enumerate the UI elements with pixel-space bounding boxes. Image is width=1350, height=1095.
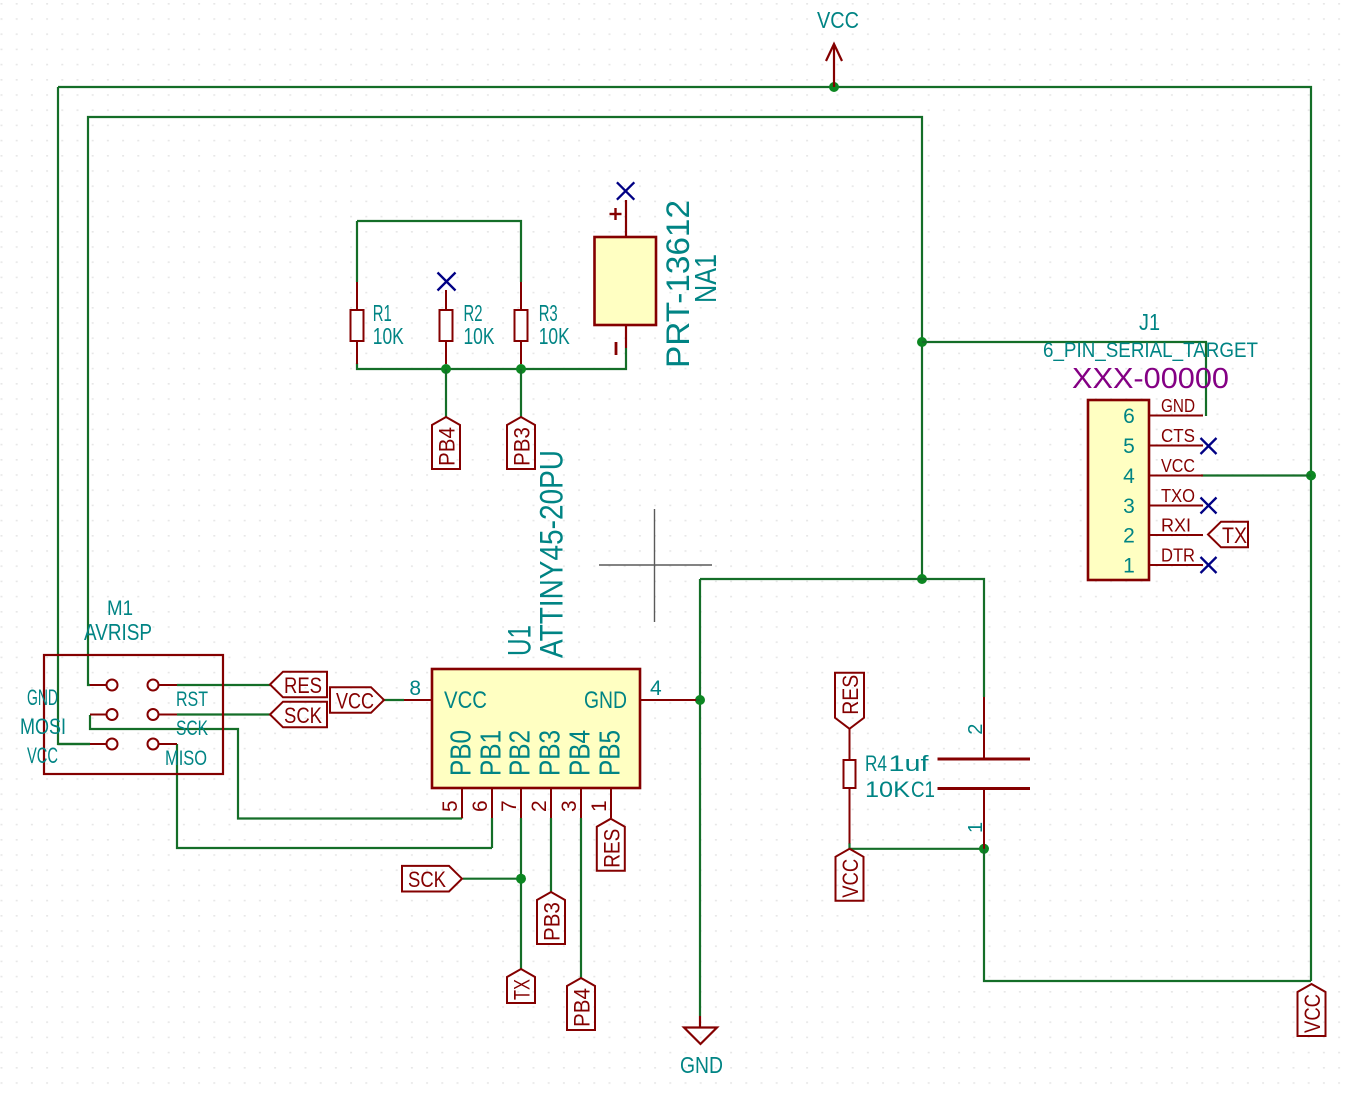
global label VCC (bottom right): [1298, 984, 1326, 1036]
M1 pin circle right MISO: [148, 739, 159, 750]
resistor R4 top lead: [849, 729, 851, 760]
wire second rail to M1 GND pin and J1 GND (net GND): [88, 117, 922, 685]
capacitor C1 top plate: [938, 758, 1031, 761]
svg-text:M1: M1: [107, 597, 133, 620]
resistor R3 body: [515, 310, 528, 341]
svg-text:MOSI: MOSI: [20, 714, 66, 739]
capacitor C1 pin2 lead: [983, 697, 985, 758]
svg-text:CTS: CTS: [1161, 426, 1195, 446]
global label PB3 (below R3): [507, 417, 535, 469]
M1 pin circle left MOSI: [107, 709, 118, 720]
wire R4 bottom to C1 bottom (net VCC): [850, 843, 985, 849]
svg-text:VCC: VCC: [336, 689, 374, 714]
J1 pin 2 line: [1149, 534, 1203, 536]
svg-text:GND: GND: [680, 1052, 723, 1078]
svg-text:2: 2: [1123, 525, 1135, 548]
svg-text:RST: RST: [176, 688, 208, 711]
no-connect X on J1 DTR: [1201, 557, 1217, 573]
U1 pin 7 line: [520, 788, 522, 818]
resistor R4 bottom lead: [849, 788, 851, 844]
wire U1 pin7 to TX label: [520, 818, 522, 969]
svg-text:10K: 10K: [464, 323, 495, 349]
M1 pin circle right RST: [148, 680, 159, 691]
resistor R1 body: [351, 310, 364, 341]
junction U1 pin4 / GND drop: [695, 695, 705, 705]
svg-text:RES: RES: [838, 675, 863, 715]
resistor R1 leads: [356, 282, 358, 364]
junction VCC rail / power symbol tap: [829, 82, 839, 92]
wire M1 SCK to SCK label: [177, 713, 270, 715]
wire U1 pin6 vertical: [491, 818, 493, 848]
svg-text:6: 6: [469, 800, 492, 812]
svg-text:PB4: PB4: [570, 988, 595, 1027]
J1 pin 3 line: [1149, 505, 1203, 507]
cursor crosshair: [599, 509, 712, 622]
svg-text:PB2: PB2: [505, 730, 537, 776]
svg-text:1uf: 1uf: [889, 751, 930, 776]
M1 pin stubs row VCC/MISO: [90, 743, 177, 745]
svg-text:RES: RES: [599, 829, 624, 868]
svg-text:10K: 10K: [373, 323, 404, 349]
svg-text:10K: 10K: [865, 777, 910, 802]
svg-text:4: 4: [1123, 465, 1135, 488]
capacitor C1 bottom plate: [938, 787, 1031, 790]
svg-text:MISO: MISO: [165, 747, 207, 770]
svg-text:RES: RES: [284, 673, 322, 698]
U1 pin 5 line: [461, 788, 463, 818]
wire J1 pin4 VCC to right rail: [1201, 474, 1311, 476]
svg-text:1: 1: [1123, 555, 1135, 578]
svg-text:PB1: PB1: [476, 730, 508, 776]
no-connect X on R2 top: [438, 273, 456, 291]
svg-text:J1: J1: [1139, 309, 1160, 335]
svg-text:AVRISP: AVRISP: [84, 619, 152, 645]
global label TX (U1 pin7): [507, 969, 535, 1003]
svg-text:6: 6: [1123, 405, 1135, 428]
junction VCC rail / J1 pin4: [1306, 471, 1316, 481]
svg-text:6_PIN_SERIAL_TARGET: 6_PIN_SERIAL_TARGET: [1043, 339, 1258, 362]
M1 pin circle left GND: [107, 680, 118, 691]
svg-text:PB3: PB3: [540, 902, 565, 941]
M1 pin circle left VCC: [107, 739, 118, 750]
svg-text:C1: C1: [911, 777, 935, 802]
junction C1 pin1 / VCC link: [979, 844, 989, 854]
svg-text:GND: GND: [584, 687, 627, 714]
svg-text:NA1: NA1: [688, 254, 723, 303]
svg-text:3: 3: [1123, 495, 1135, 518]
svg-text:DTR: DTR: [1161, 546, 1195, 566]
svg-text:TX: TX: [510, 979, 535, 1000]
no-connect X on buzzer plus pin: [617, 182, 634, 199]
buzzer NA1 top lead: [625, 200, 627, 237]
global label PB3 (U1 pin2): [537, 892, 565, 944]
svg-text:5: 5: [439, 800, 462, 812]
IC U1 body: [432, 669, 640, 788]
wire SCK label to pin7 net: [463, 878, 521, 880]
junction GND rail / GND bus: [917, 574, 927, 584]
svg-text:PB5: PB5: [595, 730, 627, 776]
svg-text:ATTINY45-20PU: ATTINY45-20PU: [534, 450, 570, 658]
U1 pin 3 line: [580, 788, 582, 818]
J1 pin 6 line: [1149, 415, 1203, 417]
svg-text:8: 8: [409, 677, 421, 700]
junction SCK / pin7: [516, 874, 526, 884]
no-connect X on J1 TXO: [1201, 498, 1217, 514]
svg-text:VCC: VCC: [838, 859, 863, 898]
M1 pin circle right SCK: [148, 709, 159, 720]
wire U1 pin2 to PB3 label: [550, 818, 552, 892]
svg-text:2: 2: [528, 800, 551, 812]
M1 pin stubs row GND/RST: [90, 684, 177, 686]
svg-text:PB4: PB4: [435, 427, 460, 466]
svg-text:SCK: SCK: [284, 703, 322, 728]
connector J1 body: [1088, 400, 1149, 580]
global label PB4 (U1 pin3): [567, 978, 595, 1030]
global label RES (U1 pin1): [597, 819, 625, 871]
buzzer NA1 plus sign: [610, 208, 622, 220]
junction R3 / PB3 tap: [516, 364, 526, 374]
svg-text:VCC: VCC: [27, 743, 58, 768]
wire R2 bottom to PB4 label: [445, 369, 447, 417]
resistor R2 body: [440, 310, 453, 341]
connector M1 body: [44, 655, 223, 774]
U1 pin8 line: [404, 699, 432, 701]
wire M1 RST to RES label: [177, 684, 270, 686]
power symbol VCC (top): [826, 44, 842, 87]
svg-text:RXI: RXI: [1161, 516, 1191, 536]
junction R2 / PB4 tap: [441, 364, 451, 374]
U1 pin4 line: [640, 699, 696, 701]
wire VCC label to U1 pin8: [384, 699, 404, 701]
wire J1 GND pin branch: [922, 342, 1206, 416]
wire M1 VCC pin to left rail: [58, 743, 90, 745]
wire U1 GND drop to ground symbol: [699, 579, 701, 1016]
svg-text:7: 7: [498, 800, 521, 812]
svg-text:SCK: SCK: [408, 867, 446, 892]
svg-text:TXO: TXO: [1161, 486, 1195, 506]
svg-text:VCC: VCC: [1300, 994, 1325, 1033]
J1 pin 5 line: [1149, 445, 1203, 447]
svg-text:PB3: PB3: [510, 427, 535, 466]
svg-text:PB0: PB0: [446, 730, 478, 776]
svg-text:10K: 10K: [539, 323, 570, 349]
global label SCK (U1 pin7): [402, 866, 462, 892]
svg-text:SCK: SCK: [176, 717, 208, 740]
global label TX (J1 RXI): [1208, 522, 1248, 548]
svg-text:1: 1: [965, 822, 987, 833]
svg-text:2: 2: [965, 724, 987, 735]
U1 pin 1 line: [610, 788, 612, 818]
svg-text:U1: U1: [502, 625, 538, 656]
svg-text:VCC: VCC: [1161, 456, 1195, 476]
buzzer NA1 body: [595, 237, 657, 325]
buzzer NA1 minus sign: [615, 342, 618, 355]
M1 pin stubs row MOSI/SCK: [90, 714, 177, 716]
resistor R4 body: [844, 760, 856, 788]
U1 pin 6 line: [491, 788, 493, 818]
svg-text:4: 4: [650, 677, 662, 700]
svg-text:R4: R4: [865, 751, 887, 776]
svg-text:VCC: VCC: [444, 687, 487, 714]
svg-text:5: 5: [1123, 435, 1135, 458]
J1 pin 1 line: [1149, 564, 1203, 566]
wire GND bus from U1 pin4 to C1 pin2: [700, 579, 984, 697]
svg-text:XXX-00000: XXX-00000: [1072, 363, 1229, 395]
capacitor C1 pin1 lead: [983, 790, 985, 849]
junction GND rail at J1 branch: [917, 337, 927, 347]
J1 pin 4 line: [1149, 475, 1203, 477]
wire VCC top rail (net VCC): [58, 87, 1311, 981]
wire U1 pin5 stub: [461, 817, 463, 819]
svg-text:3: 3: [558, 800, 581, 812]
resistor R3 leads: [520, 282, 522, 364]
U1 pin 2 line: [550, 788, 552, 818]
wire M1 MOSI to U1 pin5 (PB0): [90, 715, 462, 819]
global label PB4 (below R2): [432, 417, 460, 469]
global label RES (M1 RST): [270, 672, 327, 698]
resistor R2 leads: [445, 290, 447, 364]
wire R1-R3 top link: [357, 221, 521, 282]
global label SCK (M1 SCK): [270, 702, 327, 728]
wire U1 pin3 to PB4 label: [580, 818, 582, 978]
global label VCC (below R4): [836, 849, 864, 901]
global label VCC (U1 pin8): [330, 687, 384, 713]
wire M1 MISO to U1 pin6 (PB1): [177, 744, 492, 848]
wire C1 bottom to VCC label bottom right: [984, 849, 1311, 981]
global label RES (above R4): [835, 673, 864, 729]
no-connect X on J1 CTS: [1201, 438, 1217, 454]
svg-text:VCC: VCC: [817, 7, 859, 33]
svg-text:PB3: PB3: [535, 730, 567, 776]
svg-text:GND: GND: [1161, 396, 1195, 416]
ground symbol GND: [684, 1016, 717, 1044]
wire resistor bottom bus to buzzer: [357, 348, 626, 369]
svg-text:1: 1: [588, 800, 611, 812]
svg-text:PB4: PB4: [565, 730, 597, 776]
wire R3 bottom to PB3 label: [520, 369, 522, 417]
buzzer NA1 bottom lead: [625, 325, 627, 348]
wire U1 pin4 link: [696, 699, 700, 701]
svg-text:GND: GND: [27, 685, 58, 710]
svg-text:TX: TX: [1222, 523, 1247, 548]
